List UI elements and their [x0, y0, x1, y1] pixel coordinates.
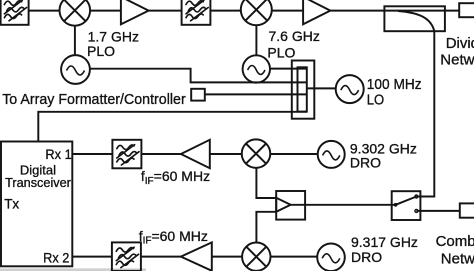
wire cal amp output to switch [291, 204, 396, 206]
mixer M1 [60, 0, 91, 26]
svg-text:Tx: Tx [4, 197, 19, 212]
svg-text:9.317 GHz: 9.317 GHz [351, 234, 418, 250]
svg-text:Rx 2: Rx 2 [43, 250, 69, 266]
wire PLO2 output to LO distribution [270, 68, 307, 70]
scan shadow bottom-left [0, 268, 146, 271]
label 9.317 GHz DRO [351, 234, 418, 265]
switch SW1 [392, 191, 421, 220]
label Combiner Network [436, 233, 474, 267]
svg-text:Rx 1: Rx 1 [45, 146, 71, 162]
wire Rx1 chain [72, 153, 317, 155]
amplifier A2 [303, 0, 330, 24]
filter FL2 (7.6 GHz BPF) [182, 0, 211, 25]
wire mixer M2 to PLO2 [255, 25, 257, 55]
filter FL4 (Rx2 IF filter) [112, 242, 141, 271]
amplifier A4 (Rx2 IF amp, points left) [181, 242, 212, 270]
mixer M3 (Rx1) [242, 139, 271, 168]
wire Rx2 chain [72, 256, 317, 258]
mixer M2 [241, 0, 272, 25]
amplifier A1 [121, 0, 149, 24]
LO distribution network U1 (nested boxes) [292, 61, 315, 119]
svg-text:Combiner: Combiner [436, 233, 474, 250]
combiner network box (cut at right edge) [460, 203, 474, 217]
filter FL1 (image BPF, top-left, cut by edge) [1, 0, 29, 25]
label Divider Network [440, 35, 474, 69]
wire top row main line [29, 10, 460, 12]
oscillator DRO2 9.317 GHz [317, 243, 345, 271]
svg-text:7.6 GHz: 7.6 GHz [269, 28, 320, 44]
oscillator PLO1 1.7 GHz [61, 55, 90, 84]
wire LO distribution to 100 MHz LO [307, 87, 336, 89]
svg-text:Divider: Divider [446, 35, 474, 52]
mixer M4 (Rx2) [242, 243, 270, 271]
label 9.302 GHz DRO [350, 141, 417, 171]
wire controller square to LO distribution [205, 93, 307, 95]
wire PLO1 output to LO distribution [90, 69, 307, 83]
svg-text:DRO: DRO [350, 154, 381, 170]
wire switch to combiner network [416, 210, 459, 212]
amplifier A3 (Rx1 IF amp, points left) [181, 140, 210, 168]
filter FL3 (Rx1 IF filter) [112, 140, 141, 169]
oscillator DRO1 9.302 GHz [318, 141, 345, 168]
wire coupler tap down to switch [416, 31, 434, 196]
svg-text:Network: Network [440, 52, 474, 69]
svg-text:Network: Network [441, 250, 474, 267]
svg-text:Transceiver: Transceiver [5, 175, 71, 190]
svg-text:To Array Formatter/Controller: To Array Formatter/Controller [2, 91, 186, 108]
svg-text:PLO: PLO [87, 43, 115, 59]
label Digital Transceiver [5, 162, 71, 190]
svg-text:DRO: DRO [351, 249, 382, 265]
svg-text:1.7 GHz: 1.7 GHz [88, 29, 139, 45]
cal amplifier A5 (boxed) [276, 191, 305, 220]
svg-text:PLO: PLO [267, 45, 295, 61]
digital transceiver box [1, 142, 72, 267]
wire controller bus to digital transceiver [38, 112, 307, 142]
divider network box (cut at right edge) [459, 3, 474, 17]
directional coupler DC1 [384, 6, 445, 31]
label 7.6 GHz PLO [267, 28, 319, 60]
label 100 MHz LO [367, 76, 422, 109]
wire mixer M3 LO port to cal amp [256, 168, 276, 198]
svg-text:100 MHz: 100 MHz [367, 76, 422, 93]
controller port square [191, 89, 205, 101]
svg-text:LO: LO [367, 92, 384, 109]
wire cal amp to mixer M4 LO port [256, 212, 276, 243]
oscillator LO 100 MHz [336, 75, 364, 103]
wire mixer M1 to PLO1 [74, 26, 76, 56]
label 1.7 GHz PLO [87, 29, 139, 60]
oscillator PLO2 7.6 GHz [243, 55, 270, 82]
